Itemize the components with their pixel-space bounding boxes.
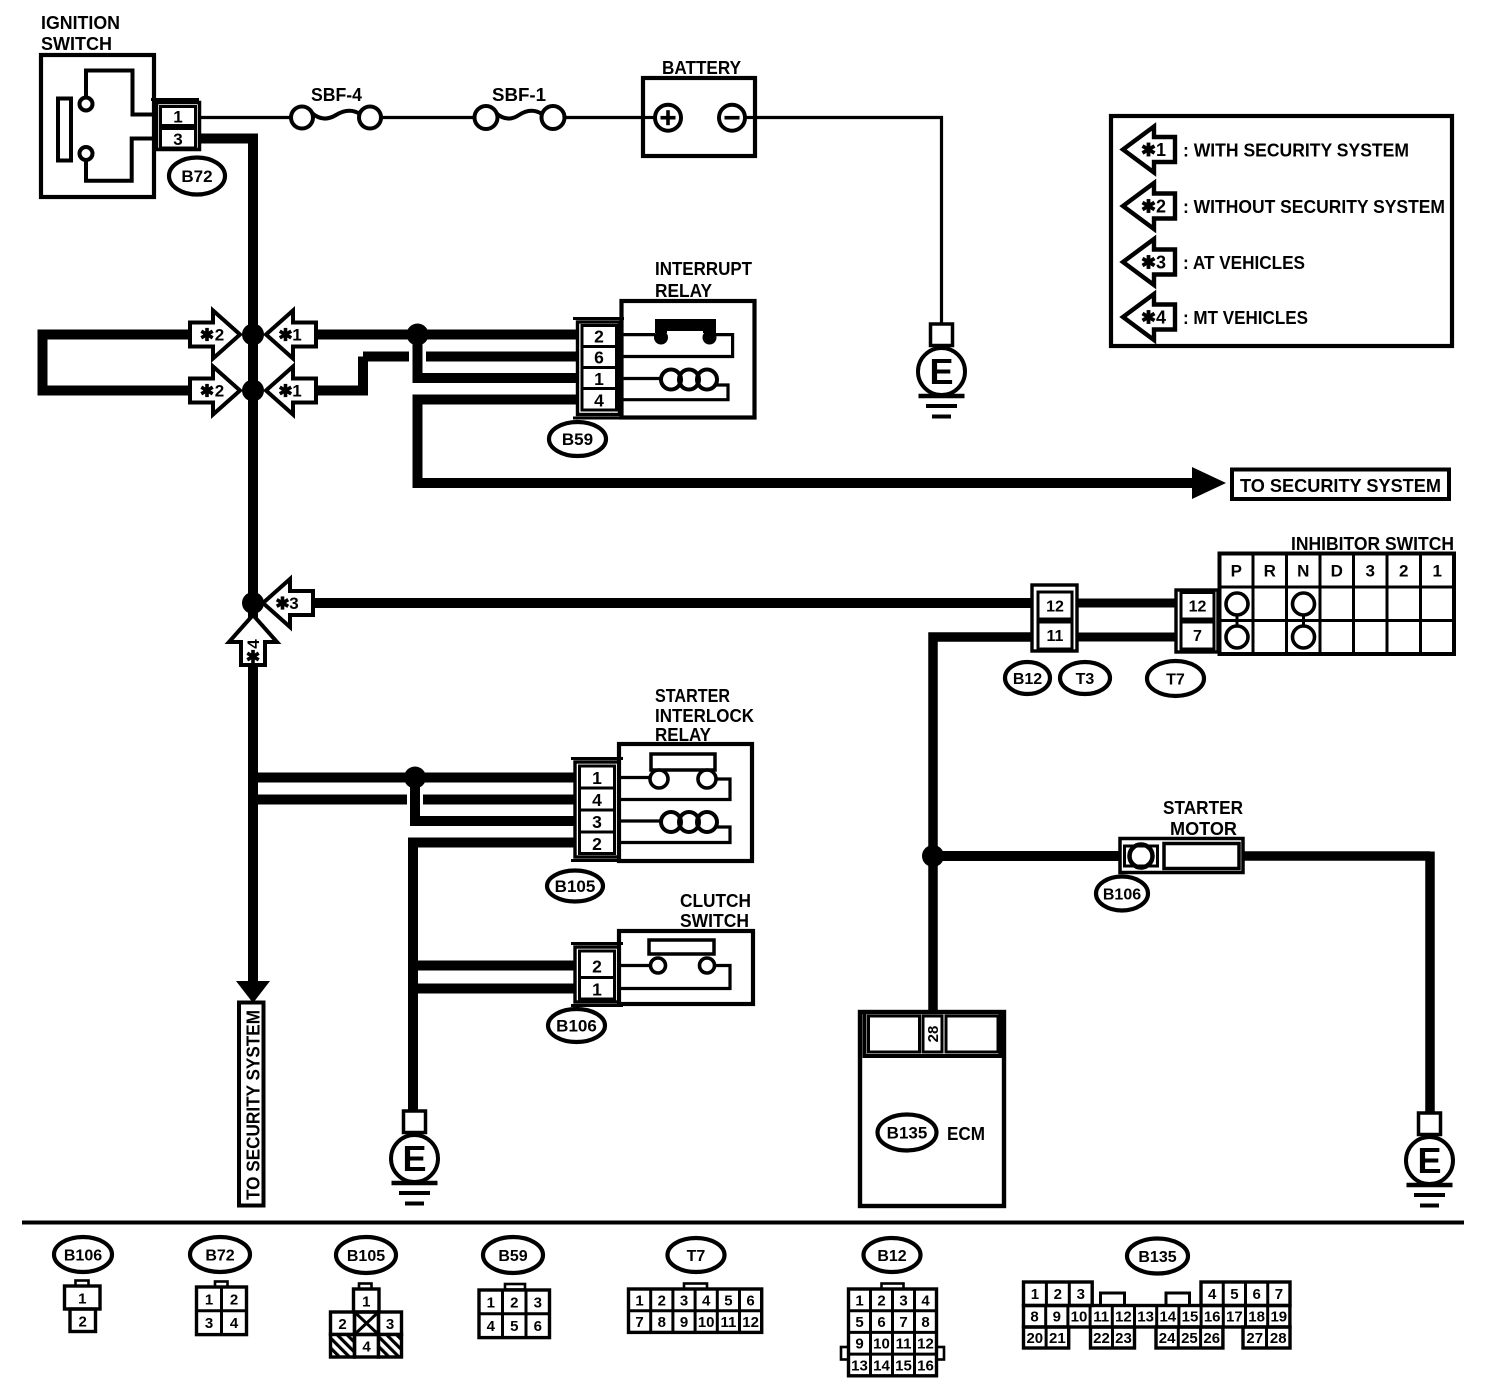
svg-text:STARTER: STARTER	[1163, 798, 1243, 818]
connector B135 pinout	[1024, 1282, 1093, 1306]
svg-text:E: E	[402, 1138, 426, 1179]
svg-text:3: 3	[1156, 253, 1166, 273]
svg-text:N: N	[1297, 562, 1309, 581]
svg-text:5: 5	[1230, 1286, 1238, 1303]
label B59	[549, 422, 606, 456]
svg-text:4: 4	[921, 1292, 930, 1309]
svg-text:23: 23	[1115, 1330, 1132, 1347]
starter interlock relay contact	[651, 754, 715, 770]
clutch switch contact	[649, 940, 714, 954]
svg-text:8: 8	[658, 1314, 666, 1331]
wire interlock pin2 down to clutch	[413, 838, 575, 848]
wire ignition pin1 to SBF-4	[199, 116, 292, 119]
wire junction to relay pin1	[413, 335, 423, 379]
svg-text:2: 2	[338, 1316, 346, 1333]
arrow *3	[263, 579, 313, 627]
svg-text:SWITCH: SWITCH	[41, 34, 112, 54]
ECM connector strip	[865, 1012, 1001, 1056]
wire B72 pin3 main vertical	[199, 139, 253, 984]
svg-text:B12: B12	[877, 1248, 906, 1265]
svg-text:2: 2	[1156, 197, 1166, 217]
legend arrow *4	[1123, 294, 1175, 340]
label B135 (ECM)	[878, 1115, 937, 1151]
wire relay pin4 to security system	[418, 400, 1193, 484]
svg-text:10: 10	[698, 1314, 715, 1331]
svg-text:1: 1	[362, 1294, 370, 1311]
connector B106 block (clutch)	[571, 942, 623, 945]
svg-text:6: 6	[594, 348, 604, 368]
svg-text:P: P	[1231, 562, 1242, 581]
svg-text:2: 2	[592, 834, 602, 854]
svg-text:12: 12	[1046, 599, 1064, 616]
connector B12 block (inhibitor)	[1032, 585, 1077, 651]
arrowhead down (to security system)	[236, 981, 270, 1003]
svg-text:27: 27	[1246, 1330, 1263, 1347]
svg-text:28: 28	[1270, 1330, 1287, 1347]
svg-text:4: 4	[487, 1318, 496, 1335]
connector B59 pinout	[505, 1284, 525, 1290]
svg-text:11: 11	[1047, 628, 1064, 645]
label B72 (pinout)	[190, 1237, 250, 1272]
wire B12-11 to ECM/motor vertical	[933, 637, 1032, 1012]
svg-text:1: 1	[594, 369, 604, 389]
label B105	[547, 871, 603, 902]
svg-text:B72: B72	[205, 1247, 234, 1264]
svg-text:12: 12	[917, 1336, 934, 1353]
svg-text:3: 3	[1077, 1286, 1085, 1303]
svg-text:B106: B106	[64, 1247, 102, 1264]
svg-text:2: 2	[510, 1294, 518, 1311]
svg-text:4: 4	[244, 639, 263, 649]
connector T7 block (inhibitor)	[1176, 590, 1218, 652]
svg-text:6: 6	[1252, 1286, 1260, 1303]
svg-text:2: 2	[594, 327, 604, 347]
svg-text:16: 16	[917, 1357, 934, 1374]
svg-text:3: 3	[289, 594, 298, 613]
svg-text:1: 1	[592, 980, 602, 1000]
svg-text:SBF-1: SBF-1	[492, 85, 546, 105]
svg-text:17: 17	[1226, 1309, 1243, 1326]
svg-text:9: 9	[1053, 1309, 1061, 1326]
svg-text:3: 3	[1366, 562, 1375, 581]
svg-text:26: 26	[1203, 1330, 1220, 1347]
separator line	[22, 1221, 1464, 1225]
label B59 (pinout)	[483, 1237, 543, 1273]
svg-text:INTERRUPT: INTERRUPT	[655, 259, 752, 279]
label B135 (pinout)	[1127, 1239, 1188, 1274]
svg-text:B106: B106	[556, 1017, 597, 1036]
to security system box (right)	[1232, 470, 1449, 500]
svg-text:CLUTCH: CLUTCH	[680, 891, 751, 911]
wire clutch pin1	[408, 984, 575, 994]
ground E (starter motor)	[1419, 1113, 1441, 1135]
junction starter motor	[922, 845, 944, 867]
inhibitor switch grid	[1220, 554, 1455, 655]
interrupt relay coil	[619, 377, 663, 380]
svg-text:1: 1	[1031, 1286, 1039, 1303]
connector B105 block	[571, 757, 623, 760]
junction interlock pin1	[404, 767, 426, 789]
svg-text:1: 1	[855, 1292, 863, 1309]
svg-text:20: 20	[1026, 1330, 1043, 1347]
svg-text:STARTER: STARTER	[655, 686, 730, 706]
svg-text:2: 2	[230, 1291, 238, 1308]
ECM box	[860, 1012, 1004, 1206]
label T7 (inhibitor)	[1147, 661, 1204, 696]
svg-text:25: 25	[1181, 1330, 1198, 1347]
connector T7 pinout	[684, 1284, 707, 1290]
svg-text:2: 2	[1054, 1286, 1062, 1303]
inhibitor contacts P	[1226, 593, 1248, 615]
wire row2 to relay pin6	[316, 386, 363, 396]
svg-text:3: 3	[680, 1292, 688, 1309]
svg-text:11: 11	[1093, 1309, 1109, 1326]
svg-text:3: 3	[899, 1292, 907, 1309]
svg-text:13: 13	[851, 1357, 868, 1374]
junction row1	[242, 324, 264, 346]
svg-text:SBF-4: SBF-4	[311, 85, 362, 105]
svg-text:T3: T3	[1076, 671, 1095, 688]
ignition switch key symbol	[58, 99, 71, 161]
connector B72 on ignition switch	[151, 98, 199, 101]
svg-text:1: 1	[173, 108, 182, 127]
svg-text:4: 4	[362, 1339, 371, 1356]
starter interlock relay coil	[619, 819, 663, 822]
wire U-loop left	[43, 335, 191, 391]
junction relay pin2	[407, 324, 429, 346]
svg-text:IGNITION: IGNITION	[41, 13, 120, 33]
svg-text:6: 6	[877, 1314, 885, 1331]
svg-text:8: 8	[921, 1314, 929, 1331]
wire B12-12 to T7-12	[1077, 599, 1176, 608]
svg-text:10: 10	[873, 1336, 890, 1353]
svg-text:8: 8	[1030, 1309, 1038, 1326]
inhibitor contacts N	[1293, 593, 1315, 615]
interrupt relay contact bar	[655, 319, 716, 331]
svg-text:18: 18	[1248, 1309, 1265, 1326]
svg-text:5: 5	[510, 1318, 518, 1335]
svg-text:B12: B12	[1013, 671, 1042, 688]
arrow *1 row1	[266, 311, 316, 359]
label B106 (clutch)	[548, 1009, 605, 1042]
svg-text:B106: B106	[1103, 886, 1141, 903]
svg-text:INHIBITOR SWITCH: INHIBITOR SWITCH	[1291, 534, 1454, 554]
svg-text:6: 6	[534, 1318, 542, 1335]
connector B105 pinout	[359, 1284, 372, 1290]
junction row2	[242, 380, 264, 402]
svg-text:2: 2	[79, 1314, 87, 1331]
wire main to interlock pin1	[248, 773, 575, 783]
label B72	[169, 158, 225, 195]
svg-text:3: 3	[173, 130, 182, 149]
svg-text:15: 15	[1182, 1309, 1199, 1326]
starter interlock relay box	[619, 744, 752, 861]
wire battery to ground	[755, 116, 943, 119]
clutch switch box	[619, 931, 753, 1004]
svg-text:2: 2	[215, 326, 224, 345]
svg-text:B105: B105	[555, 877, 596, 896]
svg-text:: WITH SECURITY SYSTEM: : WITH SECURITY SYSTEM	[1183, 141, 1409, 161]
svg-text:12: 12	[742, 1314, 759, 1331]
svg-text:TO SECURITY SYSTEM: TO SECURITY SYSTEM	[1240, 475, 1441, 496]
wire SBF-1 to battery	[564, 116, 644, 119]
svg-text:7: 7	[635, 1314, 643, 1331]
svg-text:B72: B72	[181, 167, 212, 186]
label B106 (pinout)	[54, 1237, 112, 1272]
wire starter motor to ground	[1243, 851, 1430, 861]
svg-text:24: 24	[1159, 1330, 1176, 1347]
svg-text:14: 14	[873, 1357, 890, 1374]
svg-text:4: 4	[592, 790, 602, 810]
svg-text:12: 12	[1115, 1309, 1132, 1326]
arrow *2 row2	[190, 367, 240, 415]
svg-text:3: 3	[592, 812, 602, 832]
wire clutch pin2	[413, 961, 575, 971]
svg-text:15: 15	[895, 1357, 912, 1374]
svg-text:3: 3	[205, 1315, 213, 1332]
legend arrow *1	[1123, 127, 1175, 173]
svg-text:4: 4	[702, 1292, 711, 1309]
svg-text:2: 2	[1399, 562, 1408, 581]
label B106 (starter motor)	[1096, 877, 1148, 911]
wire row1 to relay pin2	[316, 330, 578, 340]
svg-text:4: 4	[1208, 1286, 1217, 1303]
wire B12-11 to T7-7	[1077, 633, 1176, 642]
arrow *4	[229, 615, 277, 665]
svg-text:7: 7	[1193, 628, 1202, 645]
svg-text:10: 10	[1071, 1309, 1088, 1326]
svg-text:2: 2	[658, 1292, 666, 1309]
legend arrow *3	[1123, 239, 1175, 285]
svg-text:D: D	[1331, 562, 1343, 581]
wire junction to starter motor	[933, 851, 1121, 861]
label B105 (pinout)	[336, 1237, 396, 1273]
svg-text:B135: B135	[1138, 1249, 1176, 1266]
svg-text:: MT VEHICLES: : MT VEHICLES	[1183, 308, 1308, 328]
svg-text:1: 1	[635, 1292, 643, 1309]
svg-text:B135: B135	[887, 1124, 928, 1143]
svg-text:1: 1	[1433, 562, 1442, 581]
svg-text:T7: T7	[1166, 671, 1185, 688]
svg-text:4: 4	[230, 1315, 239, 1332]
label T7 (pinout)	[668, 1238, 725, 1272]
arrowhead to security system	[1192, 467, 1226, 499]
svg-text:4: 4	[1156, 308, 1166, 328]
svg-text:3: 3	[386, 1316, 394, 1333]
svg-text:SWITCH: SWITCH	[680, 911, 749, 931]
svg-text:28: 28	[925, 1026, 942, 1043]
arrow *1 row2	[266, 367, 316, 415]
to security system box (vertical)	[239, 1003, 264, 1206]
svg-text:E: E	[1417, 1140, 1441, 1181]
svg-text:1: 1	[205, 1291, 213, 1308]
svg-text:3: 3	[534, 1294, 542, 1311]
svg-text:B105: B105	[347, 1248, 385, 1265]
svg-text:16: 16	[1204, 1309, 1221, 1326]
ignition switch contact 2	[80, 147, 93, 160]
svg-text:7: 7	[1275, 1286, 1283, 1303]
svg-text:6: 6	[746, 1292, 754, 1309]
svg-text:2: 2	[592, 957, 602, 977]
svg-text:11: 11	[720, 1314, 736, 1331]
arrow *2 row1	[190, 311, 240, 359]
connector B72 pinout	[215, 1282, 228, 1288]
ignition switch contact 1	[80, 98, 93, 111]
svg-text:14: 14	[1159, 1309, 1176, 1326]
svg-text:ECM: ECM	[947, 1124, 985, 1144]
svg-text:2: 2	[215, 382, 224, 401]
svg-text:13: 13	[1137, 1309, 1154, 1326]
svg-text:19: 19	[1270, 1309, 1287, 1326]
svg-text:4: 4	[594, 391, 604, 411]
svg-text:BATTERY: BATTERY	[662, 58, 741, 78]
svg-text:: WITHOUT SECURITY SYSTEM: : WITHOUT SECURITY SYSTEM	[1183, 197, 1445, 217]
connector B12 pinout	[882, 1284, 904, 1290]
wire junction to interlock pin3	[410, 778, 420, 822]
svg-text:B59: B59	[562, 430, 593, 449]
wire SBF-4 to SBF-1	[381, 116, 475, 119]
svg-text:2: 2	[877, 1292, 885, 1309]
svg-text:TO SECURITY SYSTEM: TO SECURITY SYSTEM	[244, 1010, 264, 1200]
ignition switch box	[41, 55, 154, 197]
svg-text:12: 12	[1189, 599, 1207, 616]
svg-text:B59: B59	[498, 1248, 527, 1265]
legend box	[1111, 116, 1452, 346]
svg-text:7: 7	[899, 1314, 907, 1331]
svg-text:11: 11	[896, 1336, 912, 1353]
svg-text:22: 22	[1093, 1330, 1110, 1347]
label T3	[1060, 662, 1110, 694]
ground E (clutch)	[404, 1111, 426, 1133]
svg-text:1: 1	[292, 382, 301, 401]
wire main to interlock pin4	[248, 795, 407, 805]
svg-text:1: 1	[592, 768, 602, 788]
label B12 (inhibitor)	[1005, 662, 1050, 694]
svg-text:INTERLOCK: INTERLOCK	[655, 706, 754, 726]
connector B106 pinout	[76, 1281, 89, 1287]
starter motor	[1120, 839, 1243, 873]
svg-text:1: 1	[487, 1294, 495, 1311]
wire *3 to inhibitor B12 pin12	[313, 598, 1032, 608]
svg-text:R: R	[1264, 562, 1276, 581]
interrupt relay contact wiring	[619, 333, 655, 336]
svg-text:: AT VEHICLES: : AT VEHICLES	[1183, 253, 1305, 273]
junction row3	[242, 592, 264, 614]
svg-text:E: E	[929, 351, 953, 392]
svg-text:9: 9	[680, 1314, 688, 1331]
svg-text:1: 1	[78, 1291, 86, 1308]
legend arrow *2	[1123, 183, 1175, 229]
battery	[643, 78, 755, 156]
svg-text:5: 5	[855, 1314, 863, 1331]
label B12 (pinout)	[864, 1238, 921, 1272]
svg-text:1: 1	[292, 326, 301, 345]
ground E (battery)	[931, 324, 953, 346]
svg-text:5: 5	[724, 1292, 732, 1309]
svg-text:RELAY: RELAY	[655, 281, 712, 301]
interrupt relay box	[622, 301, 755, 418]
svg-text:9: 9	[855, 1336, 863, 1353]
svg-text:MOTOR: MOTOR	[1170, 819, 1237, 839]
connector B59 block	[573, 317, 624, 320]
svg-text:T7: T7	[687, 1248, 706, 1265]
svg-text:21: 21	[1049, 1330, 1066, 1347]
svg-text:1: 1	[1156, 140, 1166, 160]
